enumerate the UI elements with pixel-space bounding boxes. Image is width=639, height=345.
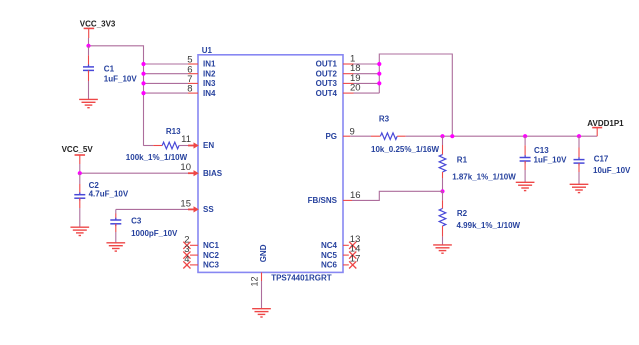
- svg-text:1uF_10V: 1uF_10V: [534, 155, 568, 164]
- svg-text:4: 4: [184, 254, 189, 265]
- svg-text:OUT1: OUT1: [316, 60, 338, 69]
- svg-text:OUT2: OUT2: [316, 69, 338, 78]
- svg-text:NC4: NC4: [321, 241, 338, 250]
- svg-text:VCC_3V3: VCC_3V3: [80, 19, 116, 28]
- svg-text:PG: PG: [325, 132, 337, 141]
- svg-text:FB/SNS: FB/SNS: [308, 196, 338, 205]
- svg-text:IN2: IN2: [203, 69, 216, 78]
- svg-text:C3: C3: [131, 216, 142, 225]
- svg-text:IN1: IN1: [203, 60, 216, 69]
- svg-text:1.87k_1%_1/10W: 1.87k_1%_1/10W: [452, 173, 516, 182]
- svg-text:IN4: IN4: [203, 89, 216, 98]
- svg-text:8: 8: [187, 84, 192, 95]
- svg-text:VCC_5V: VCC_5V: [62, 145, 94, 154]
- svg-text:16: 16: [350, 190, 361, 201]
- svg-text:9: 9: [350, 127, 355, 138]
- svg-text:BIAS: BIAS: [203, 169, 223, 178]
- svg-text:15: 15: [180, 198, 191, 209]
- svg-text:NC6: NC6: [321, 261, 338, 270]
- svg-text:12: 12: [250, 276, 260, 286]
- svg-text:4.99k_1%_1/10W: 4.99k_1%_1/10W: [457, 221, 521, 230]
- svg-text:NC2: NC2: [203, 251, 220, 260]
- svg-text:C1: C1: [104, 64, 115, 73]
- svg-text:R13: R13: [166, 127, 181, 136]
- svg-text:AVDD1P1: AVDD1P1: [587, 119, 624, 128]
- svg-text:20: 20: [350, 83, 361, 94]
- svg-text:NC5: NC5: [321, 251, 338, 260]
- svg-text:1uF_10V: 1uF_10V: [104, 74, 138, 83]
- svg-text:OUT3: OUT3: [316, 79, 338, 88]
- svg-text:R2: R2: [457, 209, 468, 218]
- svg-text:R1: R1: [457, 156, 468, 165]
- svg-text:4.7uF_10V: 4.7uF_10V: [89, 190, 129, 199]
- svg-text:17: 17: [350, 254, 361, 265]
- svg-text:GND: GND: [259, 244, 268, 262]
- svg-text:1000pF_10V: 1000pF_10V: [131, 229, 178, 238]
- svg-text:EN: EN: [203, 141, 214, 150]
- svg-text:IN3: IN3: [203, 79, 216, 88]
- svg-text:C13: C13: [534, 146, 549, 155]
- svg-text:10: 10: [180, 162, 191, 173]
- svg-text:U1: U1: [202, 46, 213, 55]
- svg-text:10k_0.25%_1/16W: 10k_0.25%_1/16W: [371, 145, 440, 154]
- svg-text:10uF_10V: 10uF_10V: [593, 166, 631, 175]
- svg-text:SS: SS: [203, 205, 214, 214]
- svg-text:OUT4: OUT4: [316, 89, 338, 98]
- svg-text:R3: R3: [379, 115, 390, 124]
- svg-text:TPS74401RGRT: TPS74401RGRT: [271, 273, 332, 282]
- svg-text:11: 11: [181, 134, 191, 145]
- svg-text:100k_1%_1/10W: 100k_1%_1/10W: [126, 153, 188, 162]
- svg-text:NC1: NC1: [203, 241, 220, 250]
- svg-text:NC3: NC3: [203, 261, 220, 270]
- svg-text:C17: C17: [594, 154, 609, 163]
